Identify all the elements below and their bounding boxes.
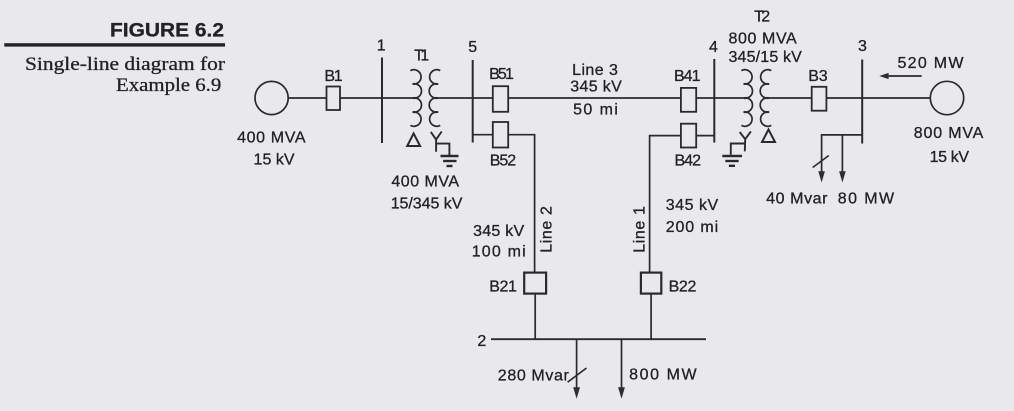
svg-text:280 Mvar: 280 Mvar: [498, 368, 570, 385]
svg-text:15 kV: 15 kV: [930, 149, 970, 166]
svg-text:2: 2: [477, 333, 486, 350]
svg-text:800 MW: 800 MW: [629, 367, 697, 384]
svg-text:B42: B42: [675, 153, 702, 170]
svg-text:T 1: T 1: [414, 48, 429, 65]
svg-text:50 mi: 50 mi: [573, 102, 618, 119]
svg-text:15/345 kV: 15/345 kV: [391, 196, 463, 213]
svg-text:400 MVA: 400 MVA: [237, 130, 306, 147]
svg-text:800 MVA: 800 MVA: [914, 125, 984, 142]
svg-text:1: 1: [377, 38, 386, 55]
svg-text:345 kV: 345 kV: [666, 197, 719, 214]
svg-text:Line 3: Line 3: [572, 62, 618, 79]
svg-text:Single-line diagram for: Single-line diagram for: [25, 54, 226, 75]
svg-text:345 kV: 345 kV: [473, 223, 524, 240]
svg-text:B3: B3: [808, 68, 827, 85]
svg-text:40 Mvar: 40 Mvar: [766, 191, 828, 208]
svg-text:3: 3: [858, 38, 867, 55]
svg-text:800 MVA: 800 MVA: [729, 30, 798, 47]
svg-text:80 MW: 80 MW: [838, 191, 895, 208]
svg-text:Line 2: Line 2: [539, 206, 556, 253]
svg-text:B41: B41: [674, 68, 701, 85]
svg-text:B51: B51: [489, 66, 514, 83]
svg-text:B52: B52: [490, 153, 517, 170]
svg-text:B21: B21: [489, 279, 517, 296]
svg-text:200 mi: 200 mi: [666, 219, 719, 236]
svg-text:FIGURE 6.2: FIGURE 6.2: [110, 20, 224, 41]
svg-text:345/15 kV: 345/15 kV: [729, 49, 803, 66]
svg-text:100 mi: 100 mi: [472, 244, 526, 261]
svg-text:B1: B1: [324, 68, 342, 85]
svg-text:Example 6.9: Example 6.9: [116, 75, 221, 96]
svg-text:B22: B22: [669, 279, 697, 296]
svg-text:4: 4: [709, 39, 718, 56]
svg-text:5: 5: [468, 39, 477, 56]
svg-text:345 kV: 345 kV: [570, 79, 622, 96]
svg-text:T2: T2: [754, 8, 770, 25]
svg-text:520 MW: 520 MW: [898, 55, 965, 72]
svg-text:Line 1: Line 1: [632, 206, 649, 253]
svg-text:400 MVA: 400 MVA: [391, 173, 459, 190]
svg-text:15 kV: 15 kV: [254, 151, 295, 168]
